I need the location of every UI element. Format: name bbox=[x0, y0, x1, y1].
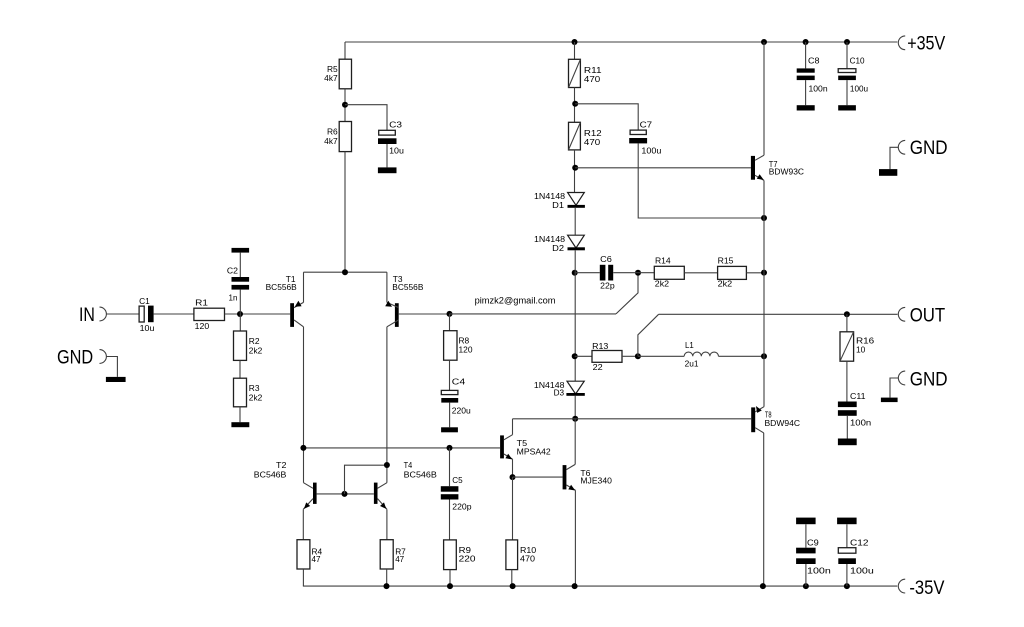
wire T1 collector line to T5 base bbox=[303, 447, 500, 449]
svg-text:10u: 10u bbox=[389, 146, 404, 156]
node rail/T8 collector bbox=[760, 583, 766, 589]
transistor T7 BDW93C bbox=[751, 156, 755, 180]
inductor L1 2u1 bbox=[638, 355, 684, 357]
ground below C11 bbox=[838, 439, 857, 446]
wire C6 to node bbox=[613, 272, 638, 274]
node L1/output column bbox=[761, 353, 767, 359]
capacitor C4 220u bbox=[441, 390, 458, 394]
diode D1 1N4148 bbox=[568, 193, 585, 206]
ground below R3 bbox=[231, 422, 249, 427]
svg-text:C6: C6 bbox=[600, 254, 612, 264]
wire node to C3 bbox=[345, 105, 387, 131]
svg-text:120: 120 bbox=[459, 345, 473, 355]
wire node to C6 bbox=[575, 272, 600, 274]
svg-text:10: 10 bbox=[856, 344, 866, 354]
capacitor C7 100u bbox=[630, 130, 646, 134]
wire R6 to diff-pair emitters bbox=[344, 152, 346, 273]
terminal IN bbox=[100, 307, 107, 321]
resistor R1 120 bbox=[194, 308, 225, 320]
transistor T8 BDW94C bbox=[751, 407, 755, 432]
svg-text:120: 120 bbox=[195, 321, 210, 331]
node T4 collector link bbox=[384, 462, 390, 468]
svg-text:C4: C4 bbox=[452, 377, 466, 387]
resistor R16 10 bbox=[840, 332, 854, 361]
capacitor C10 100u bbox=[838, 69, 856, 73]
resistor R7 47 bbox=[380, 540, 393, 569]
svg-text:100u: 100u bbox=[850, 565, 874, 575]
svg-text:4k7: 4k7 bbox=[324, 73, 338, 83]
wire C7 to emitter column bbox=[638, 143, 764, 218]
svg-text:2k2: 2k2 bbox=[718, 279, 733, 289]
svg-text:C1: C1 bbox=[139, 296, 150, 306]
ground above C12 bbox=[837, 518, 857, 525]
svg-text:1n: 1n bbox=[229, 293, 238, 303]
wire T2/T4 base tie bbox=[317, 493, 374, 495]
wire T7 base line bbox=[575, 167, 751, 169]
resistor R4 47 bbox=[297, 540, 310, 569]
wire R14-R15 bbox=[684, 272, 717, 274]
transistor T6 MJE340 bbox=[563, 465, 567, 489]
resistor R14 2k2 bbox=[654, 266, 684, 279]
ground input terminal bbox=[106, 377, 126, 382]
svg-text:2u1: 2u1 bbox=[685, 359, 699, 369]
svg-text:C5: C5 bbox=[452, 475, 463, 485]
wire R9 to rail bbox=[449, 570, 451, 587]
terminal GND upper right bbox=[898, 140, 905, 154]
svg-text:220: 220 bbox=[459, 553, 476, 563]
svg-text:C7: C7 bbox=[640, 120, 653, 130]
wire R5-R6 bbox=[344, 89, 346, 122]
wire R4 to rail bbox=[302, 569, 304, 586]
svg-text:BC556B: BC556B bbox=[266, 282, 298, 292]
wire C10 to ground bbox=[846, 80, 848, 105]
svg-text:GND: GND bbox=[910, 369, 948, 390]
svg-text:GND: GND bbox=[910, 138, 948, 159]
ground below C10 bbox=[838, 105, 856, 110]
terminal GND mid right bbox=[898, 371, 905, 385]
resistor R2 2k2 bbox=[234, 331, 247, 360]
ground mid right bbox=[881, 398, 898, 403]
node T1 collector line bbox=[300, 445, 306, 451]
capacitor C5 220p bbox=[449, 448, 451, 486]
wire R10 to rail bbox=[511, 570, 513, 587]
svg-text:4k7: 4k7 bbox=[324, 136, 338, 146]
svg-text:OUT: OUT bbox=[910, 306, 946, 327]
wire C2 to node bbox=[239, 290, 241, 331]
wire C5 to R9 bbox=[449, 500, 451, 540]
node R15/output column bbox=[761, 270, 767, 276]
resistor R6 4k7 bbox=[339, 122, 351, 152]
capacitor C2 1n bbox=[232, 277, 250, 282]
wire R13 to node bbox=[622, 355, 638, 357]
svg-text:100n: 100n bbox=[850, 418, 872, 428]
svg-text:R15: R15 bbox=[718, 256, 734, 266]
svg-text:47: 47 bbox=[312, 554, 321, 564]
transistor T2 BC546B bbox=[313, 483, 317, 504]
svg-text:D3: D3 bbox=[554, 388, 565, 398]
ground above C9 bbox=[796, 518, 816, 525]
wire GND mid right bbox=[890, 378, 898, 398]
svg-text:-35V: -35V bbox=[909, 578, 944, 599]
wire base link to T4 collector bbox=[345, 465, 387, 494]
resistor R8 120 bbox=[444, 331, 457, 361]
svg-text:L1: L1 bbox=[685, 340, 694, 350]
diode D2 1N4148 bbox=[568, 235, 585, 248]
node R5/R6/C3 bbox=[342, 102, 348, 108]
node rail/C12 bbox=[844, 583, 850, 589]
ground below C4 bbox=[441, 427, 458, 432]
svg-text:100u: 100u bbox=[850, 83, 869, 93]
node C5 branch bbox=[447, 445, 453, 451]
capacitor C1 10u bbox=[139, 306, 144, 322]
wire node to C7 bbox=[575, 104, 638, 130]
resistor R5 4k7 bbox=[339, 59, 351, 89]
terminal GND input bbox=[100, 350, 107, 364]
svg-text:IN: IN bbox=[79, 305, 95, 326]
svg-text:C12: C12 bbox=[850, 537, 869, 547]
capacitor C12 100u bbox=[838, 548, 856, 554]
ground upper right bbox=[879, 169, 897, 176]
capacitor C6 22p bbox=[600, 265, 606, 281]
svg-text:C9: C9 bbox=[807, 537, 819, 547]
svg-text:BC546B: BC546B bbox=[254, 469, 287, 479]
resistor R15 2k2 bbox=[718, 266, 747, 279]
node mirror bases bbox=[342, 491, 348, 497]
wire T5 emitter to T6 base bbox=[513, 476, 563, 478]
wire node to R13 bbox=[575, 355, 592, 357]
node R13/L1 bbox=[635, 353, 641, 359]
svg-text:C2: C2 bbox=[227, 265, 238, 275]
svg-text:R13: R13 bbox=[592, 341, 609, 351]
wire rail to C10 bbox=[846, 42, 848, 69]
transistor T1 BC556B bbox=[290, 303, 294, 327]
node T5 emitter/R10/T6 base bbox=[510, 474, 516, 480]
svg-text:GND: GND bbox=[57, 348, 93, 369]
terminal +35V bbox=[898, 36, 905, 50]
terminal -35V bbox=[898, 579, 905, 593]
svg-text:2k2: 2k2 bbox=[655, 279, 670, 289]
wire node to R10 bbox=[512, 477, 514, 540]
node rail/T6 emitter bbox=[572, 583, 578, 589]
svg-text:2k2: 2k2 bbox=[249, 345, 263, 355]
ground below C8 bbox=[797, 105, 815, 110]
svg-text:MPSA42: MPSA42 bbox=[517, 447, 551, 457]
node T3 base / R8 / feedback bbox=[447, 311, 453, 317]
node top rail / C8 bbox=[803, 39, 809, 45]
node OUT/R16 bbox=[844, 311, 850, 317]
svg-text:C8: C8 bbox=[808, 55, 820, 65]
capacitor C8 100n bbox=[797, 68, 815, 72]
wire jog node to OUT line bbox=[638, 314, 659, 356]
wire C8 to ground bbox=[805, 80, 807, 105]
wire R3 to ground bbox=[239, 407, 241, 422]
node C7/T7 emitter bbox=[761, 215, 767, 221]
resistor R3 2k2 bbox=[234, 378, 247, 407]
wire R2-R3 bbox=[239, 360, 241, 378]
node R12/T7 base bbox=[572, 165, 578, 171]
node top rail / C10 bbox=[844, 39, 850, 45]
svg-text:100n: 100n bbox=[807, 565, 831, 575]
wire R8 to C4 bbox=[449, 360, 451, 390]
svg-text:pimzk2@gmail.com: pimzk2@gmail.com bbox=[475, 295, 556, 305]
resistor R10 470 bbox=[506, 540, 518, 570]
svg-text:BC556B: BC556B bbox=[392, 282, 424, 292]
node emitters/R6 bbox=[342, 269, 348, 275]
wire GND upper right bbox=[890, 147, 898, 169]
wire R15 to output column bbox=[746, 272, 764, 274]
svg-text:MJE340: MJE340 bbox=[580, 475, 612, 485]
wire C11 to ground bbox=[846, 416, 848, 439]
svg-text:+35V: +35V bbox=[907, 34, 945, 55]
svg-text:2k2: 2k2 bbox=[249, 392, 263, 402]
svg-text:BDW93C: BDW93C bbox=[769, 167, 804, 177]
wire +35V top rail bbox=[345, 41, 897, 43]
wire -35V bottom rail bbox=[303, 585, 897, 587]
wire D1-D2 bbox=[574, 208, 576, 235]
svg-text:100u: 100u bbox=[641, 145, 661, 155]
wire node to R8 bbox=[449, 314, 451, 331]
svg-text:47: 47 bbox=[395, 554, 404, 564]
capacitor C9 100n bbox=[796, 548, 816, 554]
resistor R12 470 bbox=[569, 122, 581, 150]
svg-text:D1: D1 bbox=[552, 200, 564, 210]
svg-text:D2: D2 bbox=[552, 243, 564, 253]
transistor T5 MPSA42 bbox=[500, 435, 504, 458]
transistor T4 BC546B bbox=[374, 483, 378, 504]
resistor R13 22 bbox=[592, 351, 622, 363]
svg-text:470: 470 bbox=[584, 137, 601, 147]
wire ground to C9 bbox=[805, 524, 807, 548]
wire C4 to ground bbox=[449, 403, 451, 428]
svg-text:BC546B: BC546B bbox=[404, 469, 438, 479]
wire GND terminal bbox=[106, 357, 117, 377]
wire C9 to rail bbox=[805, 564, 807, 586]
wire ground to C2 bbox=[239, 253, 241, 277]
wire C1 to R1 bbox=[154, 313, 194, 315]
capacitor C11 100n bbox=[838, 402, 857, 408]
transistor T3 BC556B bbox=[395, 303, 399, 327]
svg-text:100n: 100n bbox=[809, 83, 828, 93]
node C6/R14 left bbox=[635, 270, 641, 276]
svg-text:C10: C10 bbox=[850, 55, 865, 65]
svg-text:220u: 220u bbox=[452, 406, 471, 416]
resistor R9 220 bbox=[444, 540, 457, 570]
node top rail / R11 bbox=[572, 39, 578, 45]
svg-text:R1: R1 bbox=[195, 297, 208, 307]
svg-text:470: 470 bbox=[520, 553, 535, 563]
svg-text:C3: C3 bbox=[389, 120, 402, 130]
node bias D3/T5/T6/T8 bbox=[572, 416, 578, 422]
terminal OUT bbox=[898, 307, 905, 321]
node rail/R7 bbox=[384, 583, 390, 589]
ground below C3 bbox=[378, 167, 397, 173]
wire C12 to rail bbox=[846, 564, 848, 586]
svg-text:C11: C11 bbox=[850, 391, 866, 401]
wire OUT node to R16 bbox=[846, 314, 848, 332]
wire IN to C1 bbox=[106, 313, 139, 315]
wire C3 to ground bbox=[386, 144, 388, 167]
wire R1 to T1 base bbox=[225, 313, 291, 315]
node top rail / T7 collector bbox=[761, 39, 767, 45]
wire D2 to R13 node bbox=[574, 250, 576, 381]
node D2/C6 bbox=[572, 270, 578, 276]
node rail/C9 bbox=[803, 583, 809, 589]
capacitor C3 10u bbox=[379, 130, 396, 135]
ground above C2 bbox=[232, 248, 250, 253]
wire OUT line bbox=[659, 313, 898, 315]
svg-text:R14: R14 bbox=[655, 256, 671, 266]
wire D3 to bias node bbox=[574, 396, 576, 419]
wire rail to R11 bbox=[574, 42, 576, 59]
svg-text:BDW94C: BDW94C bbox=[765, 418, 801, 428]
node rail/R9 bbox=[447, 583, 453, 589]
svg-text:470: 470 bbox=[584, 74, 601, 84]
wire ground to C12 bbox=[846, 524, 848, 548]
wire T1/T3 emitter tie bbox=[304, 271, 387, 273]
svg-text:22p: 22p bbox=[600, 281, 615, 291]
node rail/R10 bbox=[510, 583, 516, 589]
wire R12 to D1 bbox=[574, 150, 576, 193]
wire R11-R12 bbox=[574, 88, 576, 123]
wire rail to C8 bbox=[805, 42, 807, 68]
node R13 branch bbox=[572, 353, 578, 359]
wire T8 base line bbox=[513, 418, 752, 420]
svg-text:220p: 220p bbox=[452, 501, 472, 511]
svg-text:22: 22 bbox=[593, 362, 603, 372]
wire R16 to C11 bbox=[846, 361, 848, 401]
node input/R2/C2 bbox=[237, 311, 243, 317]
node R11/R12/C7 bbox=[572, 101, 578, 107]
svg-text:10u: 10u bbox=[140, 323, 155, 333]
resistor R11 470 bbox=[569, 59, 581, 87]
wire T3 base to node bbox=[399, 313, 450, 315]
diode D3 1N4148 bbox=[567, 381, 584, 394]
wire R7 to rail bbox=[386, 569, 388, 586]
wire rail to R5 bbox=[344, 42, 346, 59]
wire node to R14 bbox=[638, 272, 654, 274]
wire feedback line bbox=[450, 313, 617, 315]
